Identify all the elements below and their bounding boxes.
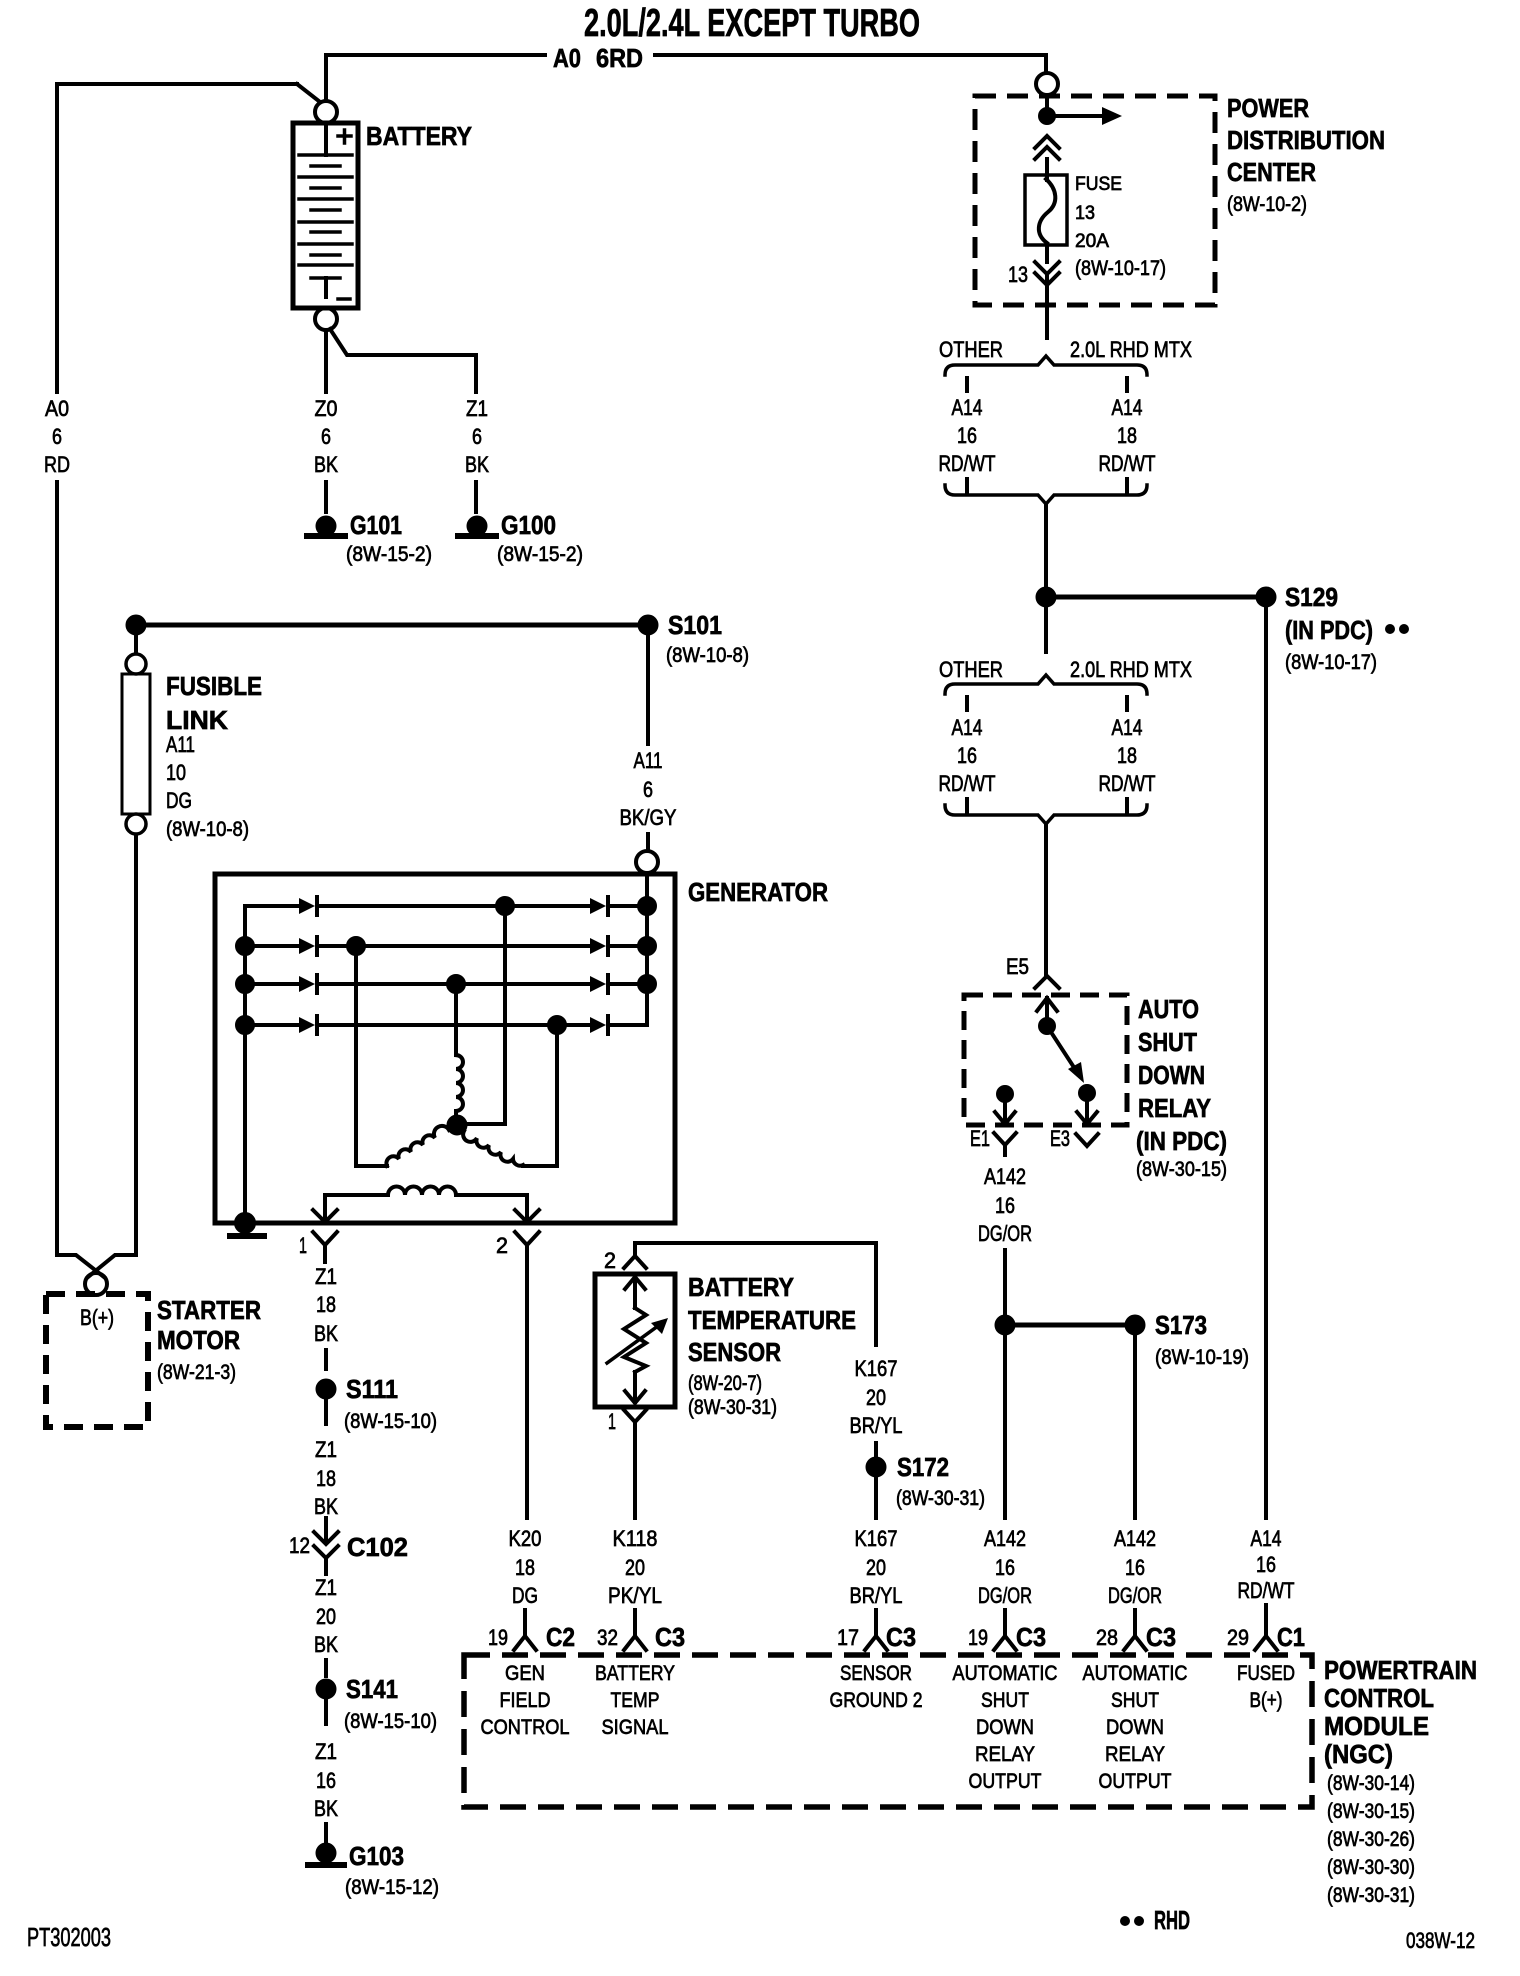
ASD relay pin E1 connector [970, 1126, 1016, 1155]
svg-text:C102: C102 [347, 1532, 408, 1562]
svg-text:BATTERY: BATTERY [688, 1272, 794, 1302]
svg-text:18: 18 [515, 1555, 535, 1580]
svg-text:(IN PDC): (IN PDC) [1136, 1126, 1227, 1156]
svg-text:(8W-15-12): (8W-15-12) [345, 1876, 439, 1899]
svg-text:SHUT: SHUT [981, 1689, 1029, 1712]
svg-text:2.0L RHD MTX: 2.0L RHD MTX [1070, 657, 1192, 682]
svg-text:2.0L RHD MTX: 2.0L RHD MTX [1070, 337, 1192, 362]
svg-text:G100: G100 [501, 510, 556, 540]
generator rectifier row 2 [237, 937, 655, 955]
svg-text:OTHER: OTHER [939, 337, 1003, 362]
svg-text:S141: S141 [346, 1674, 398, 1704]
connector C102 pin 12 [289, 1518, 408, 1574]
svg-text:BATTERY: BATTERY [595, 1662, 675, 1685]
battery B1 [293, 121, 472, 308]
fuse 13 20A [1025, 174, 1166, 280]
PCM fused B(+) label [1237, 1662, 1295, 1712]
svg-text:19: 19 [488, 1625, 508, 1650]
svg-text:16: 16 [1256, 1552, 1276, 1577]
PCM gen field control label [481, 1662, 570, 1739]
ASD relay E3 node [1080, 1086, 1094, 1100]
ASD relay switch arm [1047, 1026, 1084, 1083]
svg-text:FUSIBLE: FUSIBLE [166, 671, 262, 701]
svg-text:A142: A142 [984, 1526, 1026, 1551]
svg-text:18: 18 [316, 1292, 336, 1317]
svg-text:16: 16 [316, 1768, 336, 1793]
wire A14 18 RD/WT (lower right) [1099, 715, 1156, 796]
wire to fuse [1045, 159, 1049, 180]
wire Z0 to ground G101 [314, 330, 338, 512]
svg-text:12: 12 [289, 1533, 310, 1558]
svg-text:(8W-15-10): (8W-15-10) [344, 1410, 437, 1433]
svg-text:SIGNAL: SIGNAL [602, 1716, 669, 1739]
generator rectifier row 4 [237, 1016, 647, 1034]
svg-text:FUSE: FUSE [1075, 174, 1122, 195]
svg-text:C1: C1 [1277, 1622, 1305, 1652]
svg-text:C3: C3 [655, 1622, 685, 1652]
wire A14 16 RD/WT (lower left) [939, 715, 996, 796]
svg-text:29: 29 [1227, 1625, 1249, 1650]
svg-text:SENSOR: SENSOR [688, 1337, 781, 1367]
svg-text:RELAY: RELAY [1138, 1093, 1211, 1123]
wire K167 20 BR/YL labels above S172 [850, 1356, 903, 1457]
svg-text:C3: C3 [1146, 1622, 1176, 1652]
svg-text:18: 18 [316, 1466, 336, 1491]
PCM sensor ground 2 label [830, 1662, 923, 1712]
svg-text:G101: G101 [350, 510, 402, 540]
PCM ASD relay output label 1 [953, 1662, 1058, 1793]
battery temperature sensor pin 1 [608, 1409, 646, 1434]
ASD relay pin E3 connector [1050, 1126, 1098, 1151]
svg-text:(8W-30-31): (8W-30-31) [1327, 1884, 1415, 1907]
svg-text:E3: E3 [1050, 1126, 1070, 1151]
wire Z1 18 BK below S111 [314, 1400, 338, 1519]
wire merge (upper) [945, 479, 1147, 589]
svg-text:(8W-10-8): (8W-10-8) [166, 818, 249, 841]
svg-text:DG/OR: DG/OR [978, 1583, 1032, 1608]
splice S129 [1038, 582, 1410, 674]
svg-text:A14: A14 [952, 395, 983, 420]
svg-text:E5: E5 [1006, 954, 1029, 979]
svg-text:10: 10 [166, 760, 186, 785]
svg-text:A0: A0 [553, 43, 581, 73]
generator pin 2 connector [496, 1232, 539, 1262]
svg-text:RHD: RHD [1154, 1905, 1190, 1935]
svg-text:(8W-20-7): (8W-20-7) [688, 1372, 762, 1395]
PCM pin 28 C3 [1096, 1622, 1176, 1652]
svg-text:OUTPUT: OUTPUT [969, 1770, 1042, 1793]
wire junction X at starter B(+) [57, 1255, 136, 1277]
svg-text:RD/WT: RD/WT [939, 451, 996, 476]
wire A14 16 RD/WT (upper left) [939, 395, 996, 476]
ASD relay E3 pin arrow [1077, 1093, 1097, 1124]
svg-text:RD: RD [44, 452, 70, 477]
svg-text:BR/YL: BR/YL [850, 1583, 903, 1608]
power distribution center box [975, 93, 1385, 305]
wire K118 20 PK/YL to PCM [608, 1432, 662, 1636]
svg-text:GENERATOR: GENERATOR [688, 877, 828, 907]
generator pin 1 arrow at case [313, 1210, 337, 1222]
svg-text:A0: A0 [45, 396, 69, 421]
ASD relay pin E5 connector [1006, 954, 1059, 988]
svg-text:AUTOMATIC: AUTOMATIC [1083, 1662, 1188, 1685]
splice S101 [128, 610, 750, 667]
svg-text:S101: S101 [668, 610, 722, 640]
svg-text:SHUT: SHUT [1111, 1689, 1159, 1712]
ASD relay E1 node [998, 1087, 1012, 1101]
wire K167 20 BR/YL to PCM [850, 1478, 903, 1636]
svg-text:DOWN: DOWN [1138, 1060, 1205, 1090]
PCM battery temp signal label [595, 1662, 675, 1739]
svg-text:A142: A142 [984, 1164, 1026, 1189]
stator winding right leg [463, 1025, 557, 1166]
svg-text:6: 6 [472, 424, 482, 449]
svg-text:Z0: Z0 [315, 396, 338, 421]
battery temperature sensor [595, 1272, 856, 1419]
svg-text:(8W-15-2): (8W-15-2) [346, 543, 432, 566]
svg-text:PK/YL: PK/YL [608, 1583, 662, 1608]
svg-text:1: 1 [608, 1409, 616, 1434]
battery positive terminal [315, 101, 337, 123]
svg-text:(NGC): (NGC) [1324, 1739, 1393, 1769]
svg-text:RD/WT: RD/WT [939, 771, 996, 796]
wire split OTHER / 2.0L RHD MTX (lower) [939, 657, 1192, 710]
wire Z1 18 BK below generator pin 1 [314, 1264, 338, 1369]
svg-text:(8W-10-17): (8W-10-17) [1075, 257, 1166, 280]
svg-text:SENSOR: SENSOR [840, 1662, 912, 1685]
svg-text:DG/OR: DG/OR [978, 1221, 1032, 1246]
PCM pin 19 C3 [968, 1622, 1046, 1652]
ground G103 [308, 1841, 439, 1899]
svg-text:TEMP: TEMP [611, 1689, 660, 1712]
svg-text:CENTER: CENTER [1227, 157, 1316, 187]
svg-text:K167: K167 [855, 1526, 898, 1551]
starter B(+) terminal [85, 1273, 107, 1295]
svg-text:S111: S111 [346, 1374, 398, 1404]
svg-text:BK: BK [314, 452, 338, 477]
splice S141 [318, 1674, 438, 1733]
svg-text:STARTER: STARTER [157, 1295, 261, 1325]
svg-text:RELAY: RELAY [975, 1743, 1035, 1766]
fusible link A11 [122, 634, 262, 841]
generator output terminal [636, 851, 658, 873]
svg-text:1: 1 [299, 1233, 307, 1258]
PDC chevrons above fuse [1035, 136, 1059, 159]
wire from sensor pin 2 to S172 branch [635, 1243, 876, 1345]
svg-text:A14: A14 [1112, 395, 1143, 420]
svg-text:18: 18 [1117, 743, 1137, 768]
svg-text:(8W-30-31): (8W-30-31) [896, 1487, 985, 1510]
svg-text:A14: A14 [952, 715, 983, 740]
svg-text:LINK: LINK [166, 705, 228, 735]
svg-text:20: 20 [866, 1555, 886, 1580]
svg-text:DG: DG [166, 788, 192, 813]
svg-text:2.0L/2.4L EXCEPT TURBO: 2.0L/2.4L EXCEPT TURBO [584, 2, 920, 45]
svg-text:6RD: 6RD [596, 43, 643, 73]
svg-text:GEN: GEN [505, 1662, 545, 1685]
svg-text:RD/WT: RD/WT [1099, 451, 1156, 476]
svg-text:20: 20 [316, 1604, 336, 1629]
svg-text:(8W-10-2): (8W-10-2) [1227, 193, 1307, 216]
field winding [325, 1187, 527, 1223]
svg-text:POWER: POWER [1227, 93, 1309, 123]
svg-text:SHUT: SHUT [1138, 1027, 1197, 1057]
svg-text:BK: BK [314, 1494, 338, 1519]
svg-text:DG/OR: DG/OR [1108, 1583, 1162, 1608]
svg-text:16: 16 [1125, 1555, 1145, 1580]
PDC bus junction [1040, 109, 1054, 123]
svg-text:DISTRIBUTION: DISTRIBUTION [1227, 125, 1385, 155]
svg-text:17: 17 [837, 1625, 859, 1650]
PCM pin 29 C1 [1227, 1622, 1305, 1652]
svg-text:MOTOR: MOTOR [157, 1325, 240, 1355]
svg-text:Z1: Z1 [315, 1575, 337, 1600]
svg-text:18: 18 [1117, 423, 1137, 448]
splice S172 [868, 1452, 986, 1510]
svg-text:13: 13 [1008, 262, 1028, 287]
svg-text:32: 32 [597, 1625, 618, 1650]
svg-text:K118: K118 [613, 1526, 658, 1551]
svg-text:A11: A11 [634, 748, 663, 773]
svg-text:AUTO: AUTO [1138, 994, 1199, 1024]
auto shut down relay box [964, 994, 1227, 1181]
svg-text:(8W-10-19): (8W-10-19) [1155, 1346, 1249, 1369]
svg-text:RELAY: RELAY [1105, 1743, 1165, 1766]
generator rectifier row 1 [245, 897, 655, 915]
svg-text:(8W-30-30): (8W-30-30) [1327, 1856, 1415, 1879]
svg-text:(8W-30-14): (8W-30-14) [1327, 1772, 1415, 1795]
svg-text:(8W-30-15): (8W-30-15) [1327, 1800, 1415, 1823]
generator rectifier row 3 [237, 975, 655, 993]
wire into PDC [1045, 95, 1049, 116]
wire out of PDC [1045, 277, 1049, 338]
starter motor [46, 1294, 261, 1427]
svg-text:(8W-30-15): (8W-30-15) [1136, 1158, 1227, 1181]
svg-text:BK/GY: BK/GY [620, 805, 677, 830]
svg-text:K20: K20 [509, 1526, 542, 1551]
generator right bus wire [645, 873, 649, 1025]
svg-text:MODULE: MODULE [1324, 1711, 1429, 1741]
svg-text:CONTROL: CONTROL [481, 1716, 570, 1739]
svg-text:DOWN: DOWN [976, 1716, 1034, 1739]
svg-text:16: 16 [995, 1193, 1015, 1218]
svg-text:20A: 20A [1075, 231, 1109, 252]
svg-text:RD/WT: RD/WT [1238, 1578, 1295, 1603]
svg-text:Z1: Z1 [466, 396, 488, 421]
battery negative terminal [315, 308, 337, 330]
svg-text:6: 6 [52, 424, 62, 449]
svg-text:GROUND 2: GROUND 2 [830, 1689, 923, 1712]
wire merge (lower) [945, 799, 1147, 974]
svg-text:C2: C2 [546, 1622, 575, 1652]
svg-text:038W-12: 038W-12 [1406, 1928, 1475, 1953]
PDC bus arrow [1047, 107, 1122, 125]
wire Z1 16 BK below S141 [314, 1700, 338, 1841]
wire A14 16 RD/WT from S129 to PCM pin 29 [1238, 606, 1295, 1636]
svg-text:(8W-15-2): (8W-15-2) [497, 543, 583, 566]
svg-text:OTHER: OTHER [939, 657, 1003, 682]
powertrain control module box [464, 1655, 1477, 1907]
stator winding vertical leg [456, 906, 505, 1124]
wire K20 18 DG from generator pin 2 to PCM [509, 1262, 542, 1636]
wire Z1 20 BK below C102 [314, 1575, 338, 1676]
svg-text:S172: S172 [897, 1452, 949, 1482]
svg-text:S173: S173 [1155, 1310, 1207, 1340]
svg-text:AUTOMATIC: AUTOMATIC [953, 1662, 1058, 1685]
svg-text:2: 2 [604, 1248, 616, 1273]
svg-text:TEMPERATURE: TEMPERATURE [688, 1305, 856, 1335]
svg-text:2: 2 [496, 1233, 508, 1258]
svg-text:RD/WT: RD/WT [1099, 771, 1156, 796]
svg-text:Z1: Z1 [315, 1437, 337, 1462]
generator pin 2 arrow at case [515, 1210, 539, 1222]
svg-text:6: 6 [643, 777, 653, 802]
svg-text:Z1: Z1 [315, 1739, 337, 1764]
svg-text:20: 20 [866, 1385, 886, 1410]
svg-text:G103: G103 [349, 1841, 404, 1871]
wire split OTHER / 2.0L RHD MTX (upper) [939, 337, 1192, 391]
splice S173 [997, 1310, 1250, 1369]
svg-text:K167: K167 [855, 1356, 898, 1381]
svg-text:(8W-30-26): (8W-30-26) [1327, 1828, 1415, 1851]
svg-text:FIELD: FIELD [500, 1689, 551, 1712]
svg-text:A11: A11 [166, 732, 195, 757]
ASD relay E5 pin arrow [1037, 998, 1057, 1026]
svg-text:(IN PDC): (IN PDC) [1285, 615, 1373, 645]
svg-text:20: 20 [625, 1555, 645, 1580]
wire fusible link to starter [134, 835, 138, 1255]
svg-text:A14: A14 [1251, 1526, 1282, 1551]
svg-text:C3: C3 [886, 1622, 916, 1652]
svg-text:(8W-21-3): (8W-21-3) [157, 1361, 236, 1384]
svg-text:Z1: Z1 [315, 1264, 337, 1289]
svg-text:13: 13 [1075, 203, 1095, 224]
stator winding left leg [356, 946, 449, 1166]
svg-text:BK: BK [465, 452, 489, 477]
svg-text:A142: A142 [1114, 1526, 1156, 1551]
wire below fuse [1045, 245, 1049, 262]
svg-text:POWERTRAIN: POWERTRAIN [1324, 1655, 1477, 1685]
svg-text:S129: S129 [1285, 582, 1338, 612]
ground G101 [307, 510, 432, 566]
svg-text:C3: C3 [1016, 1622, 1046, 1652]
svg-text:6: 6 [321, 424, 331, 449]
svg-text:A14: A14 [1112, 715, 1143, 740]
svg-text:BK: BK [314, 1321, 338, 1346]
PCM pin 19 C2 [488, 1610, 575, 1652]
ground G100 [458, 510, 583, 566]
wire A142 16 DG/OR to PCM pin 28 [1108, 1334, 1162, 1636]
svg-text:(8W-10-8): (8W-10-8) [666, 644, 749, 667]
splice S111 [318, 1374, 438, 1433]
ASD relay common node [1040, 1019, 1054, 1033]
svg-text:FUSED: FUSED [1237, 1662, 1295, 1685]
svg-text:BATTERY: BATTERY [366, 121, 472, 151]
PDC pin 13 chevrons [1008, 262, 1059, 287]
svg-text:DOWN: DOWN [1106, 1716, 1164, 1739]
wire A0 6RD (battery positive to PDC) [326, 43, 1046, 101]
svg-text:B(+): B(+) [80, 1305, 114, 1330]
stator star point [449, 1117, 466, 1134]
svg-text:(8W-15-10): (8W-15-10) [344, 1710, 437, 1733]
svg-text:16: 16 [995, 1555, 1015, 1580]
svg-text:19: 19 [968, 1625, 988, 1650]
svg-text:OUTPUT: OUTPUT [1099, 1770, 1172, 1793]
wire A14 18 RD/WT (upper right) [1099, 395, 1156, 476]
wire A0 left branch to starter motor [44, 84, 320, 1255]
wire A142 16 DG/OR to PCM pin 19 [978, 1334, 1032, 1636]
svg-text:BK: BK [314, 1632, 338, 1657]
PCM pin 17 C3 [837, 1622, 916, 1652]
generator left bus wire [243, 906, 247, 1223]
svg-text:28: 28 [1096, 1625, 1118, 1650]
generator case ground [230, 1214, 264, 1236]
wire A11 6 BK/GY from S101 to generator [620, 634, 677, 851]
wire below S129 junction [1044, 606, 1048, 652]
PDC input terminal [1036, 73, 1058, 95]
svg-text:CONTROL: CONTROL [1324, 1683, 1434, 1713]
ASD relay E1 pin arrow [995, 1094, 1015, 1124]
svg-text:(8W-30-31): (8W-30-31) [688, 1396, 777, 1419]
wire Z1 to ground G100 [330, 329, 489, 512]
footnote RHD [1120, 1905, 1190, 1935]
svg-text:16: 16 [957, 743, 977, 768]
svg-text:E1: E1 [970, 1126, 990, 1151]
wire A142 16 DG/OR from E1 [978, 1164, 1032, 1317]
svg-text:16: 16 [957, 423, 977, 448]
svg-text:BK: BK [314, 1796, 338, 1821]
generator box [215, 874, 828, 1223]
generator pin 1 connector [299, 1232, 337, 1262]
battery temperature sensor pin 2 [604, 1248, 646, 1273]
PCM ASD relay output label 2 [1083, 1662, 1188, 1793]
svg-text:B(+): B(+) [1250, 1689, 1283, 1712]
svg-text:(8W-10-17): (8W-10-17) [1285, 651, 1377, 674]
PCM pin 32 C3 [597, 1622, 685, 1652]
svg-text:PT302003: PT302003 [27, 1922, 111, 1952]
svg-text:BR/YL: BR/YL [850, 1413, 903, 1438]
svg-text:DG: DG [512, 1583, 538, 1608]
